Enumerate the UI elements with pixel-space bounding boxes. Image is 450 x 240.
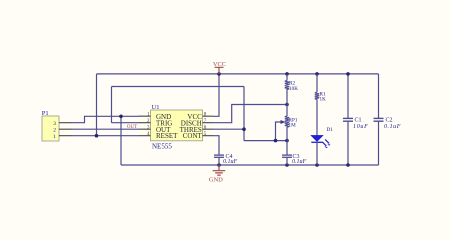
node junction RESET-VCC <box>95 134 99 138</box>
svg-text:1M: 1M <box>289 122 297 128</box>
capacitor C4 0.1uF <box>214 155 224 165</box>
wire TRIG tie right vertical <box>243 87 245 141</box>
potentiometer RP1 1M <box>285 105 289 141</box>
wire GND drop to bottom rail <box>120 116 122 165</box>
capacitor C2 0.1uF <box>374 118 384 121</box>
svg-text:P1: P1 <box>42 110 49 117</box>
wire U1 pin8 VCC up <box>213 74 219 116</box>
IC U1 NE555 body <box>151 104 203 151</box>
svg-text:2: 2 <box>53 128 56 134</box>
svg-text:U1: U1 <box>152 104 160 111</box>
svg-text:C2: C2 <box>386 118 393 124</box>
U1 pin names right <box>180 113 203 140</box>
U1 right pin leads <box>203 116 214 136</box>
connector P1 <box>42 110 72 141</box>
U1 pin numbers left 1-4 <box>147 112 150 136</box>
U1 left pin leads <box>139 116 151 136</box>
svg-text:RESET: RESET <box>156 132 178 140</box>
LED D1 <box>311 127 333 165</box>
net label OUT <box>127 125 137 130</box>
resistor R1 1K <box>315 74 319 136</box>
wire P1 pin3 to U1 GND <box>72 116 139 122</box>
svg-text:GND: GND <box>209 177 223 184</box>
capacitor C1 10uF <box>343 118 353 121</box>
resistor R2 10K <box>285 74 289 105</box>
node junction THRES tie <box>242 127 246 131</box>
node junction wiper bottom <box>274 139 278 143</box>
node junction VCC rail at C1 <box>346 72 350 76</box>
wire C2 top vertical <box>378 74 380 118</box>
wire left outer vertical (VCC to RESET) <box>96 74 98 136</box>
svg-text:OUT: OUT <box>127 125 137 130</box>
ground GND symbol <box>209 165 226 184</box>
node junction GND wire <box>119 115 123 119</box>
svg-text:10K: 10K <box>289 86 298 92</box>
node junction GND rail at C3 <box>285 163 289 167</box>
wire RP1 bottom horizontal <box>244 140 287 142</box>
svg-text:0.1uF: 0.1uF <box>384 124 401 130</box>
svg-text:1K: 1K <box>320 96 327 102</box>
U1 pin numbers right 8-5 <box>204 112 207 136</box>
svg-text:0.1uF: 0.1uF <box>223 159 238 165</box>
node junction VCC rail at R2 <box>285 72 289 76</box>
node junction GND rail at C4 <box>217 163 221 167</box>
potentiometer RP1 wiper arrow <box>276 120 286 141</box>
wire C1 bottom vertical <box>347 122 349 165</box>
node junction RP1 bottom C3 <box>285 139 289 143</box>
svg-text:VCC: VCC <box>213 61 226 68</box>
svg-text:10uF: 10uF <box>353 124 368 130</box>
U1 pin names left <box>156 113 178 140</box>
node junction VCC rail at pin8 <box>217 72 221 76</box>
capacitor C3 0.1uF <box>282 141 292 165</box>
wire bottom GND rail <box>121 164 379 166</box>
svg-text:CONT: CONT <box>183 132 203 140</box>
svg-text:D1: D1 <box>327 127 334 133</box>
wire C1 top vertical <box>347 74 349 118</box>
svg-text:3: 3 <box>53 121 56 127</box>
power VCC symbol <box>213 61 226 74</box>
wire TRIG-THRES tie upper rail <box>112 87 245 123</box>
svg-text:1: 1 <box>53 134 56 140</box>
wire U1 pin7 DISCH to R2 <box>213 105 287 123</box>
wire P1 pin1 to U1 RESET <box>72 135 139 137</box>
wire P1 pin2 to U1 OUT <box>72 128 139 130</box>
svg-text:0.1uF: 0.1uF <box>292 159 307 165</box>
svg-text:C1: C1 <box>355 118 362 124</box>
wire U1 pin6 THRES <box>213 128 244 130</box>
wire C2 bottom vertical <box>378 122 380 165</box>
node junction DISCH at R2 bottom <box>285 103 289 107</box>
node junction GND rail at C1 <box>346 163 350 167</box>
wire U1 pin5 CONT to C4 <box>213 136 219 155</box>
node junction GND rail at D1 <box>315 163 319 167</box>
wire top VCC rail <box>97 73 379 75</box>
svg-text:NE555: NE555 <box>152 143 172 151</box>
node junction VCC rail at R1 <box>315 72 319 76</box>
